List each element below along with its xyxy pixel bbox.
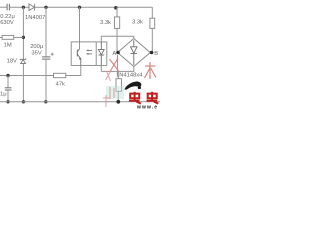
resistor R4 xyxy=(116,79,122,92)
node opto collector xyxy=(78,6,81,9)
watermark red character chong 1 xyxy=(129,92,141,104)
capacitor C1 0.22u 630V (series dropper) xyxy=(7,4,9,11)
watermark small red marks bottom left xyxy=(103,71,114,108)
bridge rectifier diamond xyxy=(118,39,151,67)
capacitor C2 200u 35V electrolytic xyxy=(42,57,50,59)
light arrow upper xyxy=(87,49,92,51)
node 1M junction xyxy=(22,36,25,39)
node A junction xyxy=(116,51,120,55)
svg-text:200μ: 200μ xyxy=(30,44,43,50)
svg-text:1N4148x4: 1N4148x4 xyxy=(116,73,143,79)
svg-text:1μ: 1μ xyxy=(0,91,7,97)
node zener bottom rail xyxy=(22,100,25,103)
zener diode D2 18V xyxy=(20,59,26,64)
wire C2 bottom lead xyxy=(45,59,47,102)
svg-text:630V: 630V xyxy=(0,20,14,26)
wire LED cathode down xyxy=(100,65,102,71)
svg-text:0.22μ: 0.22μ xyxy=(0,14,15,20)
wire R4 top lead xyxy=(117,71,119,78)
node R1 top xyxy=(114,6,118,10)
resistor R1 3.3k xyxy=(114,17,119,29)
bridge inner diode xyxy=(131,40,137,65)
op-amp U1 optocoupler box xyxy=(71,42,107,66)
svg-text:47k: 47k xyxy=(56,81,65,87)
svg-text:A: A xyxy=(112,51,116,57)
wire mid emitter rail left xyxy=(0,75,54,77)
diode D1 1N4007 xyxy=(29,4,35,11)
wire cap to diode xyxy=(9,6,29,8)
wire R1 top lead xyxy=(116,7,118,17)
watermark teal artifact patch xyxy=(106,86,124,99)
svg-text:B: B xyxy=(154,51,158,57)
watermark faint red cross left xyxy=(110,55,119,76)
wire top rail corner to R2 xyxy=(151,7,153,18)
watermark black brush stroke xyxy=(124,82,141,90)
svg-text:35V: 35V xyxy=(31,50,41,56)
svg-text:1M: 1M xyxy=(4,43,12,49)
wire left vertical upper (to zener) xyxy=(22,7,24,59)
wire bottom rail xyxy=(0,101,160,103)
wire R4 bottom lead xyxy=(117,91,119,102)
wire LED anode to bridge top xyxy=(101,36,134,42)
capacitor C3 10u xyxy=(5,88,12,90)
resistor 1M xyxy=(0,35,23,39)
watermark faint red char right xyxy=(145,62,157,79)
wire R2 bottom to node B xyxy=(151,28,153,52)
node C3 bottom rail xyxy=(6,100,9,103)
svg-text:3.3k: 3.3k xyxy=(132,20,143,26)
wire cathode rail horizontal xyxy=(101,67,134,72)
wire 47k to emitter xyxy=(66,65,81,75)
wire R1 bottom to node A xyxy=(116,28,118,52)
wire opto collector vertical xyxy=(79,7,81,49)
LED of optocoupler xyxy=(98,42,104,66)
wire top rail right of diode xyxy=(35,6,153,8)
node R4 bottom rail xyxy=(116,100,120,104)
node junction top-left xyxy=(22,6,25,9)
watermark brush blob xyxy=(138,86,142,89)
node B junction xyxy=(150,51,154,55)
node C2 bottom rail xyxy=(44,100,47,103)
svg-text:3.3k: 3.3k xyxy=(100,20,111,26)
resistor 47k xyxy=(54,73,66,77)
watermark red character chong 2 xyxy=(147,92,159,104)
emitter arrowhead xyxy=(79,58,81,61)
svg-text:18V: 18V xyxy=(7,59,17,65)
resistor R2 3.3k xyxy=(150,18,155,28)
wire 10u top lead xyxy=(7,76,9,88)
svg-text:www.e: www.e xyxy=(136,104,158,110)
transistor Q1 phototransistor xyxy=(77,49,81,65)
wire top rail left segment xyxy=(0,6,7,8)
node C2 top xyxy=(44,6,47,9)
wire 10u bottom lead xyxy=(7,90,9,102)
light arrow lower xyxy=(87,53,92,55)
wire zener to bottom rail xyxy=(22,64,24,102)
plus sign C2 xyxy=(51,53,54,56)
node 10u cap top xyxy=(6,74,9,77)
wire C2 top lead xyxy=(45,7,47,56)
svg-text:1N4007: 1N4007 xyxy=(25,15,45,21)
